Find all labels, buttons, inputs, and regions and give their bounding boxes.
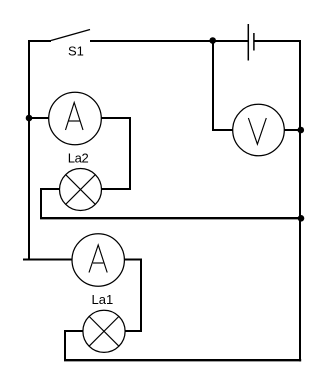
svg-text:La1: La1 — [92, 292, 114, 307]
svg-text:S1: S1 — [68, 44, 84, 59]
svg-text:La2: La2 — [68, 150, 89, 165]
